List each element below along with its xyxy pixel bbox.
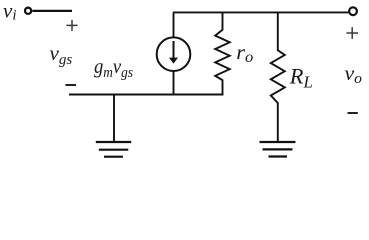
svg-text:gmvgs: gmvgs xyxy=(94,54,133,81)
svg-text:vi: vi xyxy=(3,0,17,24)
svg-text:vgs: vgs xyxy=(50,41,73,68)
svg-text:RL: RL xyxy=(289,64,313,92)
svg-text:ro: ro xyxy=(236,40,253,66)
svg-text:vo: vo xyxy=(345,61,363,87)
